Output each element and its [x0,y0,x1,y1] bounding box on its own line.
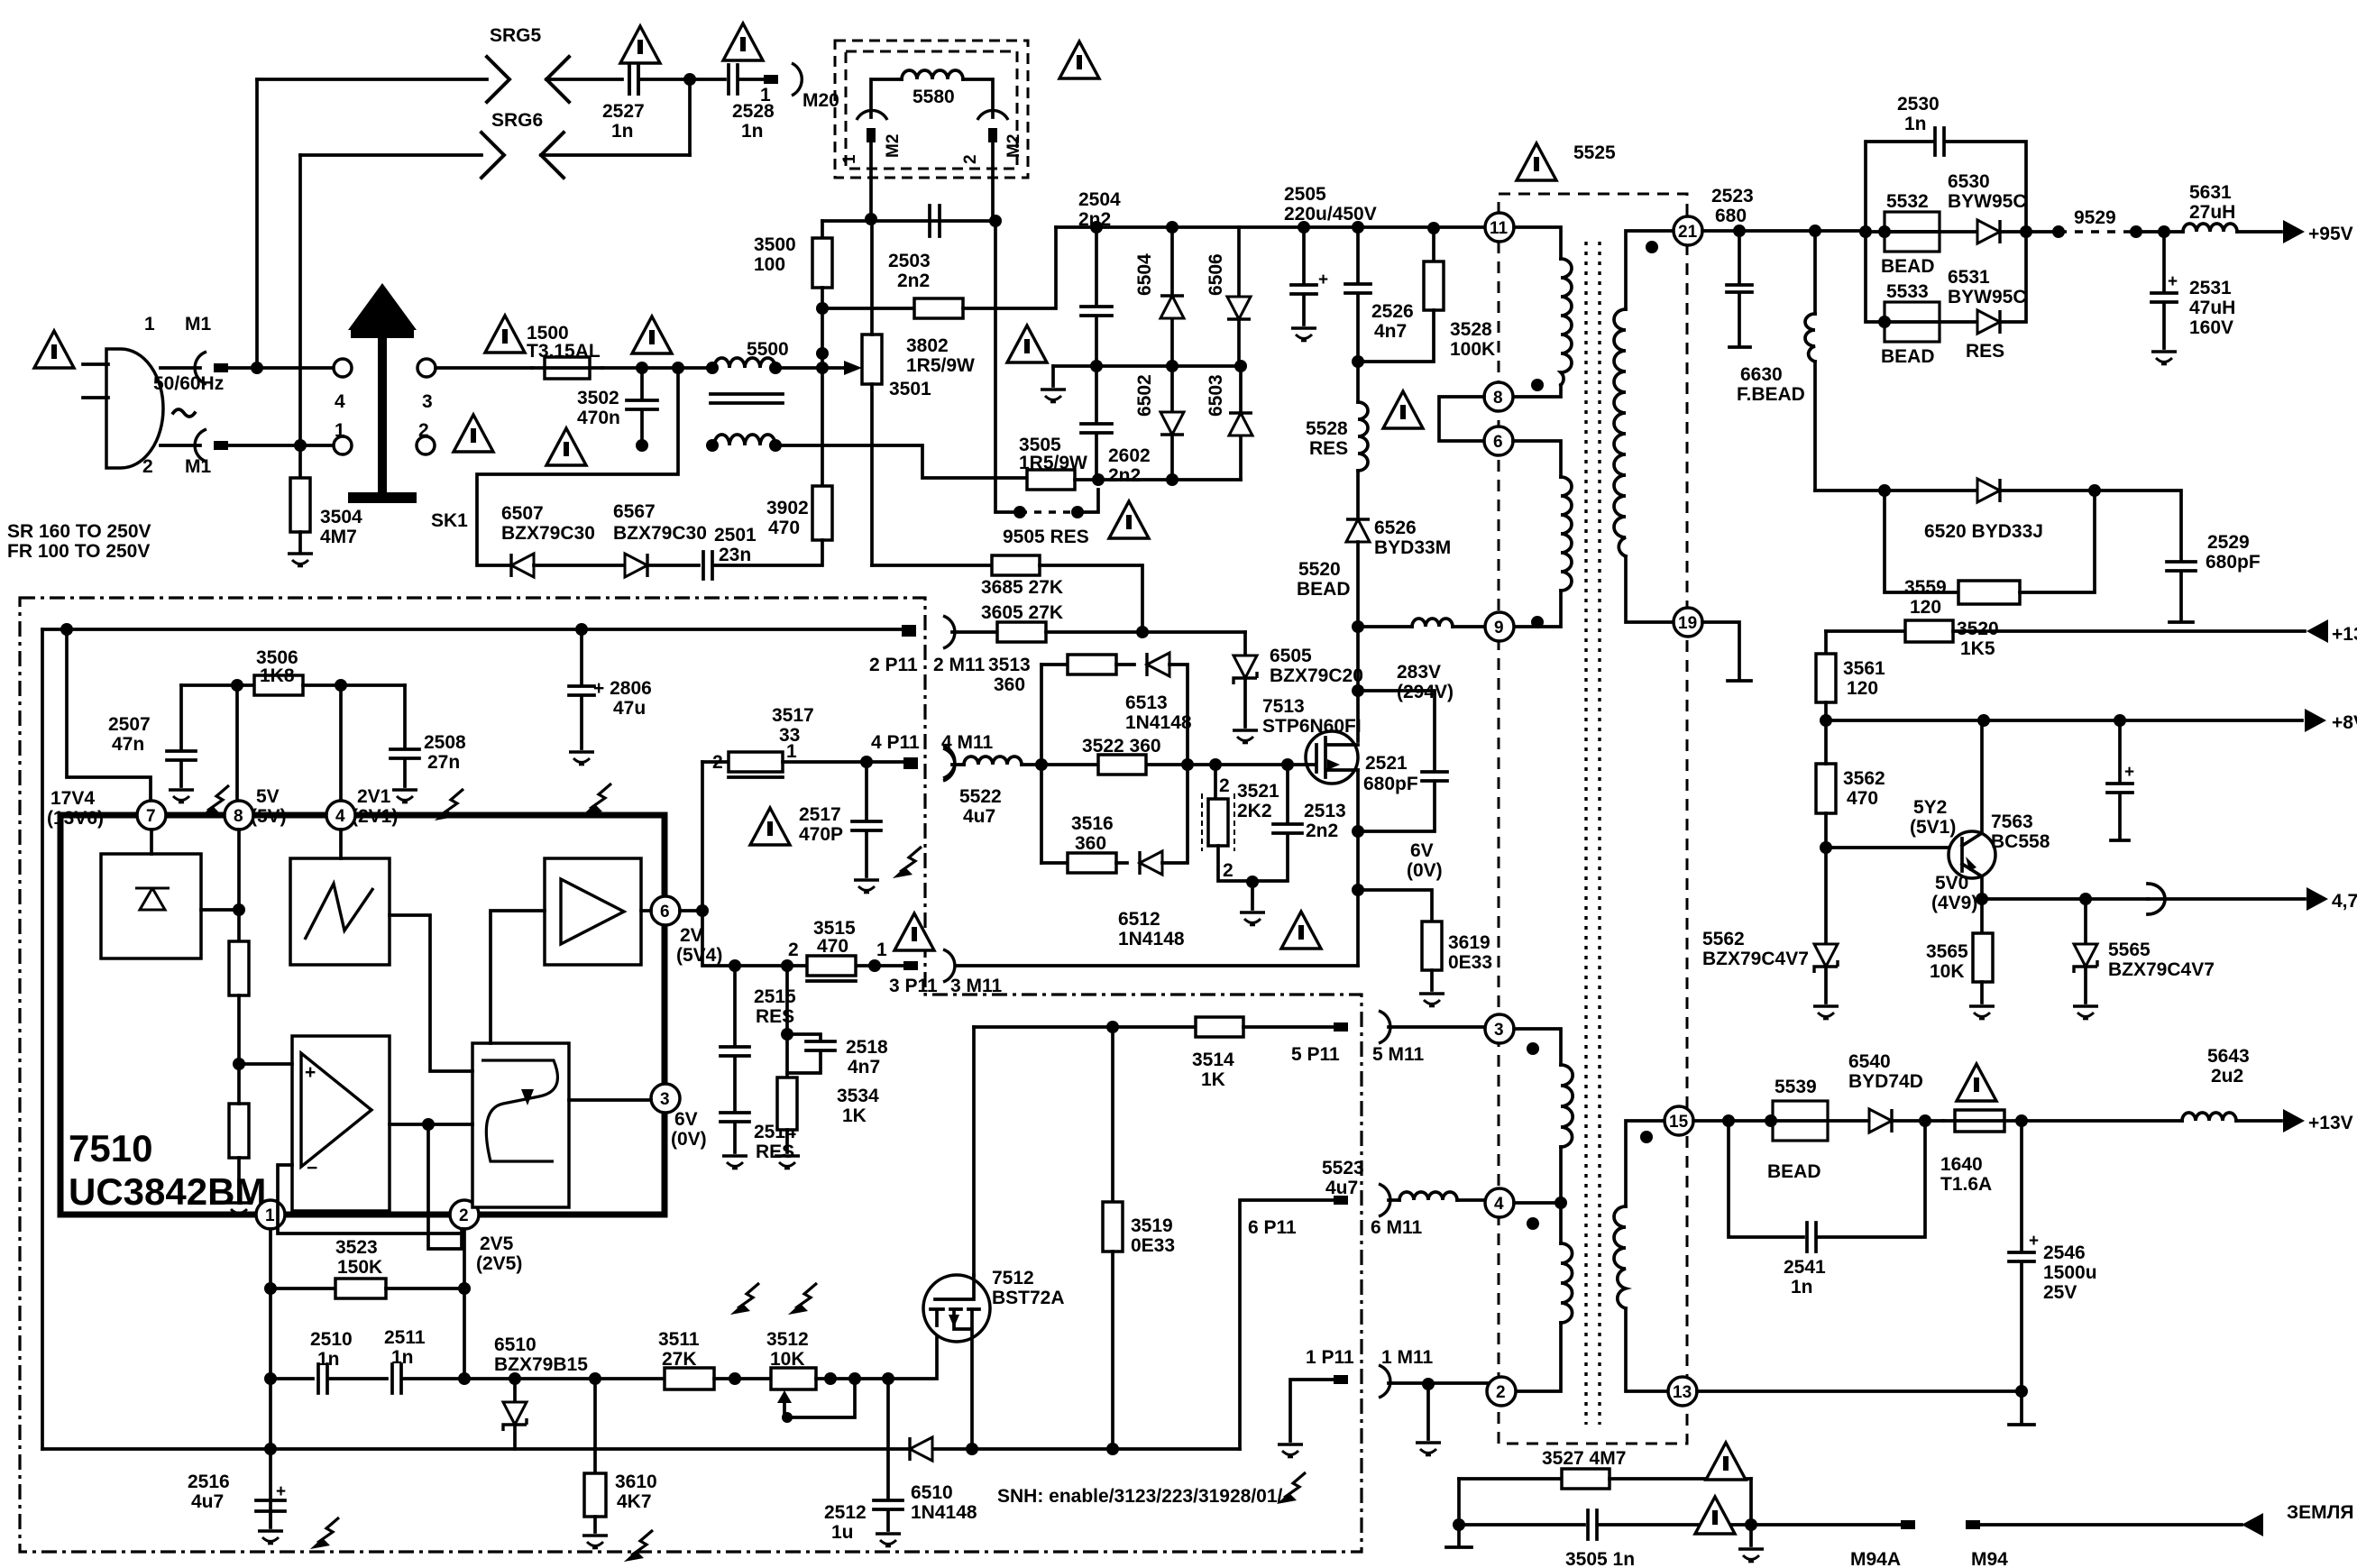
choke core lines [711,394,783,403]
wire 2503 row [822,219,995,223]
connector 2 M2 arc [977,110,1008,120]
svg-text:BYW95C: BYW95C [1948,287,2027,307]
svg-text:3512: 3512 [766,1329,809,1350]
svg-text:5520: 5520 [1298,559,1341,580]
pin 7 stub [67,629,151,802]
diode 6540 BYD74D [1869,1109,1892,1132]
warning triangle above 2528 [723,23,763,60]
svg-text:T1.6A: T1.6A [1940,1174,1992,1195]
svg-text:3517: 3517 [772,705,814,726]
svg-text:2 P11: 2 P11 [869,655,918,675]
svg-text:F.BEAD: F.BEAD [1737,384,1805,405]
svg-text:5539: 5539 [1775,1077,1817,1097]
svg-text:150K: 150K [337,1257,382,1278]
ground left stub [1446,1525,1472,1547]
module top rail [42,628,905,631]
warning triangles bottom [1706,1443,1746,1480]
primary winding bottom [1513,441,1561,477]
MOSFET 7512 BST72A [923,1275,990,1342]
svg-text:10K: 10K [770,1349,805,1370]
optocoupler arrows bottom-left [310,1518,339,1549]
svg-text:1R5/9W: 1R5/9W [906,355,975,376]
pin 11 [1485,213,1514,242]
pin 8 [1484,382,1513,411]
ferrite bead 6630 F.BEAD [1813,231,1817,314]
svg-text:5522: 5522 [959,786,1002,807]
svg-text:470n: 470n [577,408,620,428]
warning triangle near 6540 [1957,1064,1996,1101]
svg-text:17V4: 17V4 [50,788,95,809]
svg-text:5565: 5565 [2108,940,2151,960]
capacitor 2512 1u [874,1379,903,1530]
svg-text:2 M11: 2 M11 [933,655,986,675]
drain riser to 5P11 row [972,1027,976,1275]
svg-text:2503: 2503 [888,251,931,271]
warning triangle after fuse [632,316,672,353]
svg-text:3519: 3519 [1131,1215,1173,1236]
svg-text:3516: 3516 [1071,813,1114,834]
svg-text:1N4148: 1N4148 [1118,929,1185,949]
svg-text:1 P11: 1 P11 [1306,1347,1354,1368]
svg-text:+8V: +8V [2332,712,2357,733]
resistor 3685 27K [992,555,1040,575]
pin 13 [1668,1377,1697,1406]
bead 5539 [1773,1101,1828,1141]
pin 6 [651,896,680,925]
svg-text:−: − [307,1158,317,1178]
node degauss pin1 [865,213,877,225]
svg-text:M1: M1 [185,456,211,477]
svg-text:BZX79B15: BZX79B15 [494,1354,588,1375]
node 3502 top [636,362,648,374]
capacitor 2501 23n [647,552,712,579]
svg-text:BZX79C4V7: BZX79C4V7 [2108,959,2215,980]
svg-text:RES: RES [1309,438,1348,459]
capacitor 2513 2n2 [1281,758,1294,771]
snubber feed from mains [672,362,684,374]
diode 6510 1N4148 (series) [910,1437,932,1461]
IC 7510 UC3842BM box [60,815,665,1215]
wire degauss pin2 down [991,142,995,221]
resistor 3513 360 [1040,665,1043,863]
diode 6503 [1239,366,1243,480]
warning triangle right of 3515 [894,913,934,950]
switch pin 4 [334,359,352,377]
svg-text:ЗЕМЛЯ: ЗЕМЛЯ [2287,1502,2353,1523]
arrow into pot 3501 [822,366,844,370]
capacitor 2527 [629,65,638,94]
svg-text:2: 2 [712,752,723,773]
svg-text:100K: 100K [1450,339,1495,360]
svg-text:3: 3 [1494,1021,1504,1040]
svg-text:5V: 5V [256,786,280,807]
svg-text:6526: 6526 [1374,518,1417,538]
svg-text:5 P11: 5 P11 [1291,1044,1340,1065]
svg-text:BEAD: BEAD [1767,1161,1821,1182]
electrolytic 2806 47u [569,629,594,748]
pin 7 [137,801,166,830]
wire switch pin3 to fuse [436,366,532,370]
svg-text:5525: 5525 [1573,142,1616,163]
svg-text:3605 27K: 3605 27K [981,602,1063,623]
svg-text:2: 2 [961,154,980,164]
svg-text:3902: 3902 [766,498,809,518]
wire bottom mains row to snubber corner [775,445,1027,478]
wire M1-1 to switch pin 4 [228,366,334,370]
pot 3501 through vertical [870,219,874,565]
svg-text:2511: 2511 [384,1327,426,1348]
svg-text:6510: 6510 [494,1334,537,1355]
svg-text:BEAD: BEAD [1881,256,1935,277]
pin 21 [1674,216,1702,245]
svg-text:6 M11: 6 M11 [1371,1217,1423,1238]
svg-text:6510: 6510 [911,1482,953,1503]
svg-text:3: 3 [660,1090,670,1109]
link 9505 RES dashed [995,221,1020,512]
wire 6P11 row [1240,1200,1337,1449]
svg-text:2515: 2515 [754,986,796,1007]
warning triangle right of degauss box [1059,41,1099,78]
reference block [101,854,201,958]
snubber capacitor 2521 680pF [1358,691,1447,831]
svg-text:2518: 2518 [846,1037,888,1058]
optocoupler arrows row [200,785,229,817]
resistor 3562 470 [1816,764,1836,813]
svg-text:5528: 5528 [1306,418,1348,439]
svg-text:47n: 47n [112,734,144,755]
PWM latch block [472,1043,569,1207]
svg-text:M94: M94 [1971,1549,2008,1568]
svg-text:4u7: 4u7 [191,1491,224,1512]
pin 3 [651,1084,680,1113]
diode 6512 1N4148 [1116,861,1127,865]
svg-text:UC3842BM: UC3842BM [69,1170,266,1213]
pin 2 [1487,1377,1516,1406]
resistor 3902 470 [812,486,832,540]
electrolytic 2516 4u7 [256,1500,285,1527]
pin 3 [1485,1014,1514,1043]
svg-text:11: 11 [1490,219,1509,238]
svg-text:2u2: 2u2 [2211,1066,2243,1087]
svg-text:5523: 5523 [1322,1158,1364,1178]
svg-text:6504: 6504 [1134,253,1155,296]
secondary 13V winding [1626,1121,1665,1206]
svg-text:3505 1n: 3505 1n [1565,1549,1635,1568]
svg-text:(5V): (5V) [251,806,287,827]
optocoupler arrows below [730,1283,759,1315]
zener 6562 BZX79C4V7 [1824,848,1828,943]
svg-text:1: 1 [144,314,155,335]
warning triangle below 2513 [1281,912,1321,949]
resistor 3516 360 [1041,861,1068,865]
svg-text:3565: 3565 [1926,941,1968,962]
resistor 3500 [821,221,824,238]
svg-text:BZX79C30: BZX79C30 [613,523,707,544]
svg-text:5532: 5532 [1886,191,1929,212]
comparator inverting input routing [278,1165,462,1233]
IC internal wiring [201,830,239,941]
ground right stub [1749,1525,1753,1545]
svg-text:6V: 6V [674,1109,698,1130]
svg-text:8: 8 [234,807,243,826]
svg-text:BST72A: BST72A [992,1288,1065,1308]
svg-text:2513: 2513 [1304,801,1346,821]
resistor 3521 2K2 [1209,758,1222,771]
svg-text:2546: 2546 [2043,1242,2086,1263]
svg-text:5562: 5562 [1702,929,1745,949]
diode 6513 1N4148 [1116,663,1134,666]
svg-text:4 P11: 4 P11 [871,732,920,753]
svg-text:2541: 2541 [1784,1257,1826,1278]
warning triangle before fuse [485,316,525,353]
inductor 5643 2u2 [2182,1113,2236,1121]
svg-text:STP6N60FI: STP6N60FI [1262,716,1362,737]
primary rail down to MOSFET [1356,627,1360,741]
node 2503 right [989,215,1002,227]
switch pin 2 [417,436,435,454]
optocoupler arrow near 2517 [893,847,922,878]
capacitors 2515/2514 RES [720,966,749,1152]
svg-text:7513: 7513 [1262,696,1305,717]
pin1 external vertical [269,1229,272,1526]
switch pin 3 [417,359,436,377]
svg-text:M2: M2 [1004,134,1023,158]
wire degauss pin1 down [869,142,873,219]
comparator out to latch [390,1123,472,1126]
wire to zener [464,1377,665,1380]
diode 6567 BZX79C30 [625,554,647,577]
svg-text:SR 160 TO 250V: SR 160 TO 250V [7,521,151,542]
svg-text:BEAD: BEAD [1881,346,1935,367]
svg-text:6506: 6506 [1206,253,1226,296]
svg-text:1K5: 1K5 [1960,638,1995,659]
connector M1 pin 1 arc [195,352,206,384]
svg-text:6513: 6513 [1125,692,1168,713]
pin2 external vertical [463,1229,466,1379]
warning triangle right of 3517 [750,808,790,845]
spark gap SRG5 [487,57,509,102]
svg-text:(2V1): (2V1) [352,806,398,827]
svg-text:3562: 3562 [1843,768,1885,789]
resistor 3534 1K [785,1034,789,1077]
mains plug [106,349,163,468]
svg-text:6540: 6540 [1848,1051,1891,1072]
svg-text:4u7: 4u7 [963,806,995,827]
svg-text:2: 2 [1219,775,1230,796]
svg-text:6502: 6502 [1134,374,1155,417]
warning triangle left of 3502 [454,415,493,452]
svg-text:6V: 6V [1410,840,1434,861]
wire bridge mid [1053,364,1241,368]
svg-text:3: 3 [422,391,433,412]
svg-text:2V: 2V [680,925,703,946]
warning triangle at transformer top [1517,143,1556,180]
svg-text:M94A: M94A [1850,1549,1901,1568]
diode 6504 [1170,227,1174,366]
switch actuator arrow [348,283,417,330]
svg-text:1N4148: 1N4148 [1125,712,1192,733]
svg-text:21: 21 [1678,223,1698,242]
capacitor 2602 2n2 [1081,366,1112,480]
svg-text:BC558: BC558 [1991,831,2050,852]
svg-text:2527: 2527 [602,101,645,122]
latch out to pin 3 [569,1098,651,1102]
resistor 3511 27K [665,1368,714,1389]
svg-text:4n7: 4n7 [1374,321,1407,342]
zener 6505 BZX79C20 [1243,632,1247,655]
svg-text:120: 120 [1847,678,1878,699]
svg-text:SRG5: SRG5 [490,25,542,46]
fuse 1500 T3.15AL [545,357,590,379]
resistor 3561 120 [1824,631,1828,654]
capacitor 2510 1n [271,1364,387,1393]
svg-text:2: 2 [1223,860,1234,881]
svg-text:M1: M1 [185,314,211,335]
svg-text:3528: 3528 [1450,319,1492,340]
svg-text:9529: 9529 [2074,207,2116,228]
svg-text:50/60Hz: 50/60Hz [153,373,224,394]
node junction 2527/2528 [683,73,696,86]
switch pin 1 [334,436,352,454]
svg-text:2531: 2531 [2189,278,2232,298]
wire SRG6 row [300,153,481,157]
svg-text:470: 470 [768,518,800,538]
transformer core dashed line 2 [1598,242,1600,1425]
warning triangle above 2527 [620,26,660,63]
resistor 3506 1K8 row [181,683,254,687]
pin 9 [1485,612,1514,641]
pin 15 [1665,1106,1693,1135]
svg-text:8: 8 [1493,389,1503,408]
svg-text:2529: 2529 [2207,532,2250,553]
svg-text:470P: 470P [799,824,843,845]
diode 6502 [1170,366,1174,480]
pot 3501 [862,335,882,384]
wire 6510 parallel branch [593,1379,597,1449]
svg-text:(0V): (0V) [671,1129,707,1150]
resistor 3610 4K7 [593,1449,597,1473]
choke bottom winding [706,439,719,452]
net label 2V (5V4) at pin 6 [680,909,702,912]
svg-text:6512: 6512 [1118,909,1160,930]
pin 19 [1674,608,1702,637]
svg-text:6: 6 [660,903,670,922]
svg-text:220u/450V: 220u/450V [1284,204,1377,225]
electrolytic on +8V [2107,720,2132,840]
capacitor 2503 [930,206,940,236]
capacitor 2518 4n7 loop [785,966,789,1034]
svg-text:680: 680 [1715,206,1747,226]
svg-text:4n7: 4n7 [848,1057,880,1077]
osc to latch [390,915,472,1071]
degaussing dashed box outer [835,41,1028,178]
svg-text:1N4148: 1N4148 [911,1502,977,1523]
fuse 1640 T1.6A [1955,1110,2004,1132]
warning triangle right of 5528 [1383,391,1423,428]
svg-text:3501: 3501 [889,379,931,399]
svg-text:5533: 5533 [1886,281,1929,302]
svg-text:1n: 1n [317,1349,340,1370]
svg-text:+13V: +13V [2332,624,2357,645]
svg-text:M20: M20 [802,90,839,111]
svg-text:27uH: 27uH [2189,202,2235,223]
svg-text:3502: 3502 [577,388,619,408]
resistor 3517 33 row [702,760,729,764]
svg-text:FR 100 TO 250V: FR 100 TO 250V [7,541,150,562]
svg-text:2: 2 [1496,1383,1506,1402]
transformer core dashed line 1 [1584,242,1587,1425]
svg-text:0E33: 0E33 [1131,1235,1175,1256]
zener 6510 BZX79B15 [513,1379,517,1401]
svg-text:1n: 1n [391,1347,414,1368]
resistor 3514 1K row [974,1025,1196,1029]
capacitor 2507 47n [167,685,196,786]
svg-text:6 P11: 6 P11 [1248,1217,1297,1238]
driver block [545,858,641,965]
svg-text:6567: 6567 [613,501,656,522]
wire 3M11 row [956,964,1358,967]
wire degauss left [871,79,902,117]
svg-text:2n2: 2n2 [1108,465,1141,486]
svg-text:BEAD: BEAD [1297,579,1351,600]
svg-text:2504: 2504 [1078,189,1121,210]
node SRG6 riser [294,439,307,452]
svg-text:470: 470 [817,936,848,957]
diode 6526 BYD33M [1346,519,1370,542]
svg-text:3561: 3561 [1843,658,1885,679]
capacitor 2529 680pF [2095,491,2196,622]
svg-text:1: 1 [335,420,345,441]
svg-text:+95V: +95V [2308,224,2353,244]
warning triangle above bridge [1007,326,1047,362]
svg-text:680pF: 680pF [1363,774,1418,794]
ground at bridge mid [1041,390,1066,402]
svg-text:2: 2 [459,1206,469,1225]
svg-text:2505: 2505 [1284,184,1326,205]
secondary winding main [1626,231,1674,309]
svg-text:5Y2: 5Y2 [1913,797,1947,818]
svg-text:19: 19 [1678,614,1697,633]
svg-text:2517: 2517 [799,804,841,825]
svg-text:2508: 2508 [424,732,466,753]
svg-text:27K: 27K [662,1349,697,1370]
svg-text:2521: 2521 [1365,753,1408,774]
svg-text:2K2: 2K2 [1237,801,1272,821]
svg-text:1: 1 [265,1206,275,1225]
resistor 3504 [298,445,302,478]
svg-text:3504: 3504 [320,507,362,527]
wire fuse to choke [602,366,712,370]
svg-text:BZX79C4V7: BZX79C4V7 [1702,949,1809,969]
warning triangle left of plug [34,331,74,368]
svg-text:1n: 1n [1791,1277,1813,1297]
warning triangle near 9505 [1109,501,1149,538]
pin 8 [225,801,253,830]
4,7B output row [1976,893,1988,905]
svg-text:2526: 2526 [1371,301,1414,322]
svg-text:2507: 2507 [108,714,151,735]
resistor 3802 1R5/9W [822,307,914,310]
preset 3512 10K [771,1368,816,1389]
wire HT top rail [1056,225,1485,229]
svg-text:3521: 3521 [1237,781,1279,802]
resistor 3519 0E33 [1111,1027,1114,1202]
line filter choke 5500 top winding [706,362,719,374]
svg-text:3610: 3610 [615,1472,657,1492]
svg-text:3520: 3520 [1957,619,1999,639]
pin 4 [1485,1188,1514,1217]
svg-text:2n2: 2n2 [897,271,930,291]
